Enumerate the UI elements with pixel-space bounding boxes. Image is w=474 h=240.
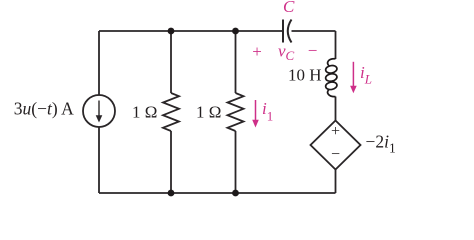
node dot top-right junction [232,28,239,35]
svg-text:−: − [331,146,340,163]
arrow iL [350,62,357,93]
node dot bottom-right junction [232,190,239,197]
svg-text:iL: iL [360,63,372,87]
wire right upper [335,31,337,59]
resistor R2 1ohm zigzag [228,93,244,131]
svg-text:−: − [308,41,318,60]
wire R2 top lead [235,31,237,93]
current source I1 circle [83,95,115,127]
dependent source diamond [311,121,361,170]
svg-text:−2i1: −2i1 [366,132,396,156]
wire R1 bottom lead [170,131,172,193]
svg-text:C: C [283,0,295,16]
svg-text:1 Ω: 1 Ω [196,103,221,122]
svg-text:10 H: 10 H [288,66,322,85]
wire top-right segment [292,30,336,32]
capacitor C right curved plate [288,20,292,43]
svg-text:+: + [331,123,340,140]
current source I1 arrow [96,101,103,123]
svg-text:i1: i1 [262,99,273,124]
svg-text:+: + [252,42,262,61]
inductor L 10H coil [325,59,338,97]
wire R2 bottom lead [235,131,237,193]
wire left upper [98,31,100,95]
wire right lower [335,170,337,194]
svg-text:3u(−t) A: 3u(−t) A [14,99,74,119]
resistor R1 1ohm zigzag [163,93,179,131]
capacitor C left plate [282,20,284,43]
wire top-left segment [99,30,283,32]
svg-text:vC: vC [278,42,295,64]
wire left lower [98,127,100,193]
node dot top-left junction [168,28,175,35]
wire R1 top lead [170,31,172,93]
wire right middle [335,97,337,121]
svg-text:1 Ω: 1 Ω [132,103,157,122]
wire bottom [99,192,336,194]
node dot bottom-left junction [168,190,175,197]
arrow i1 [252,100,259,128]
